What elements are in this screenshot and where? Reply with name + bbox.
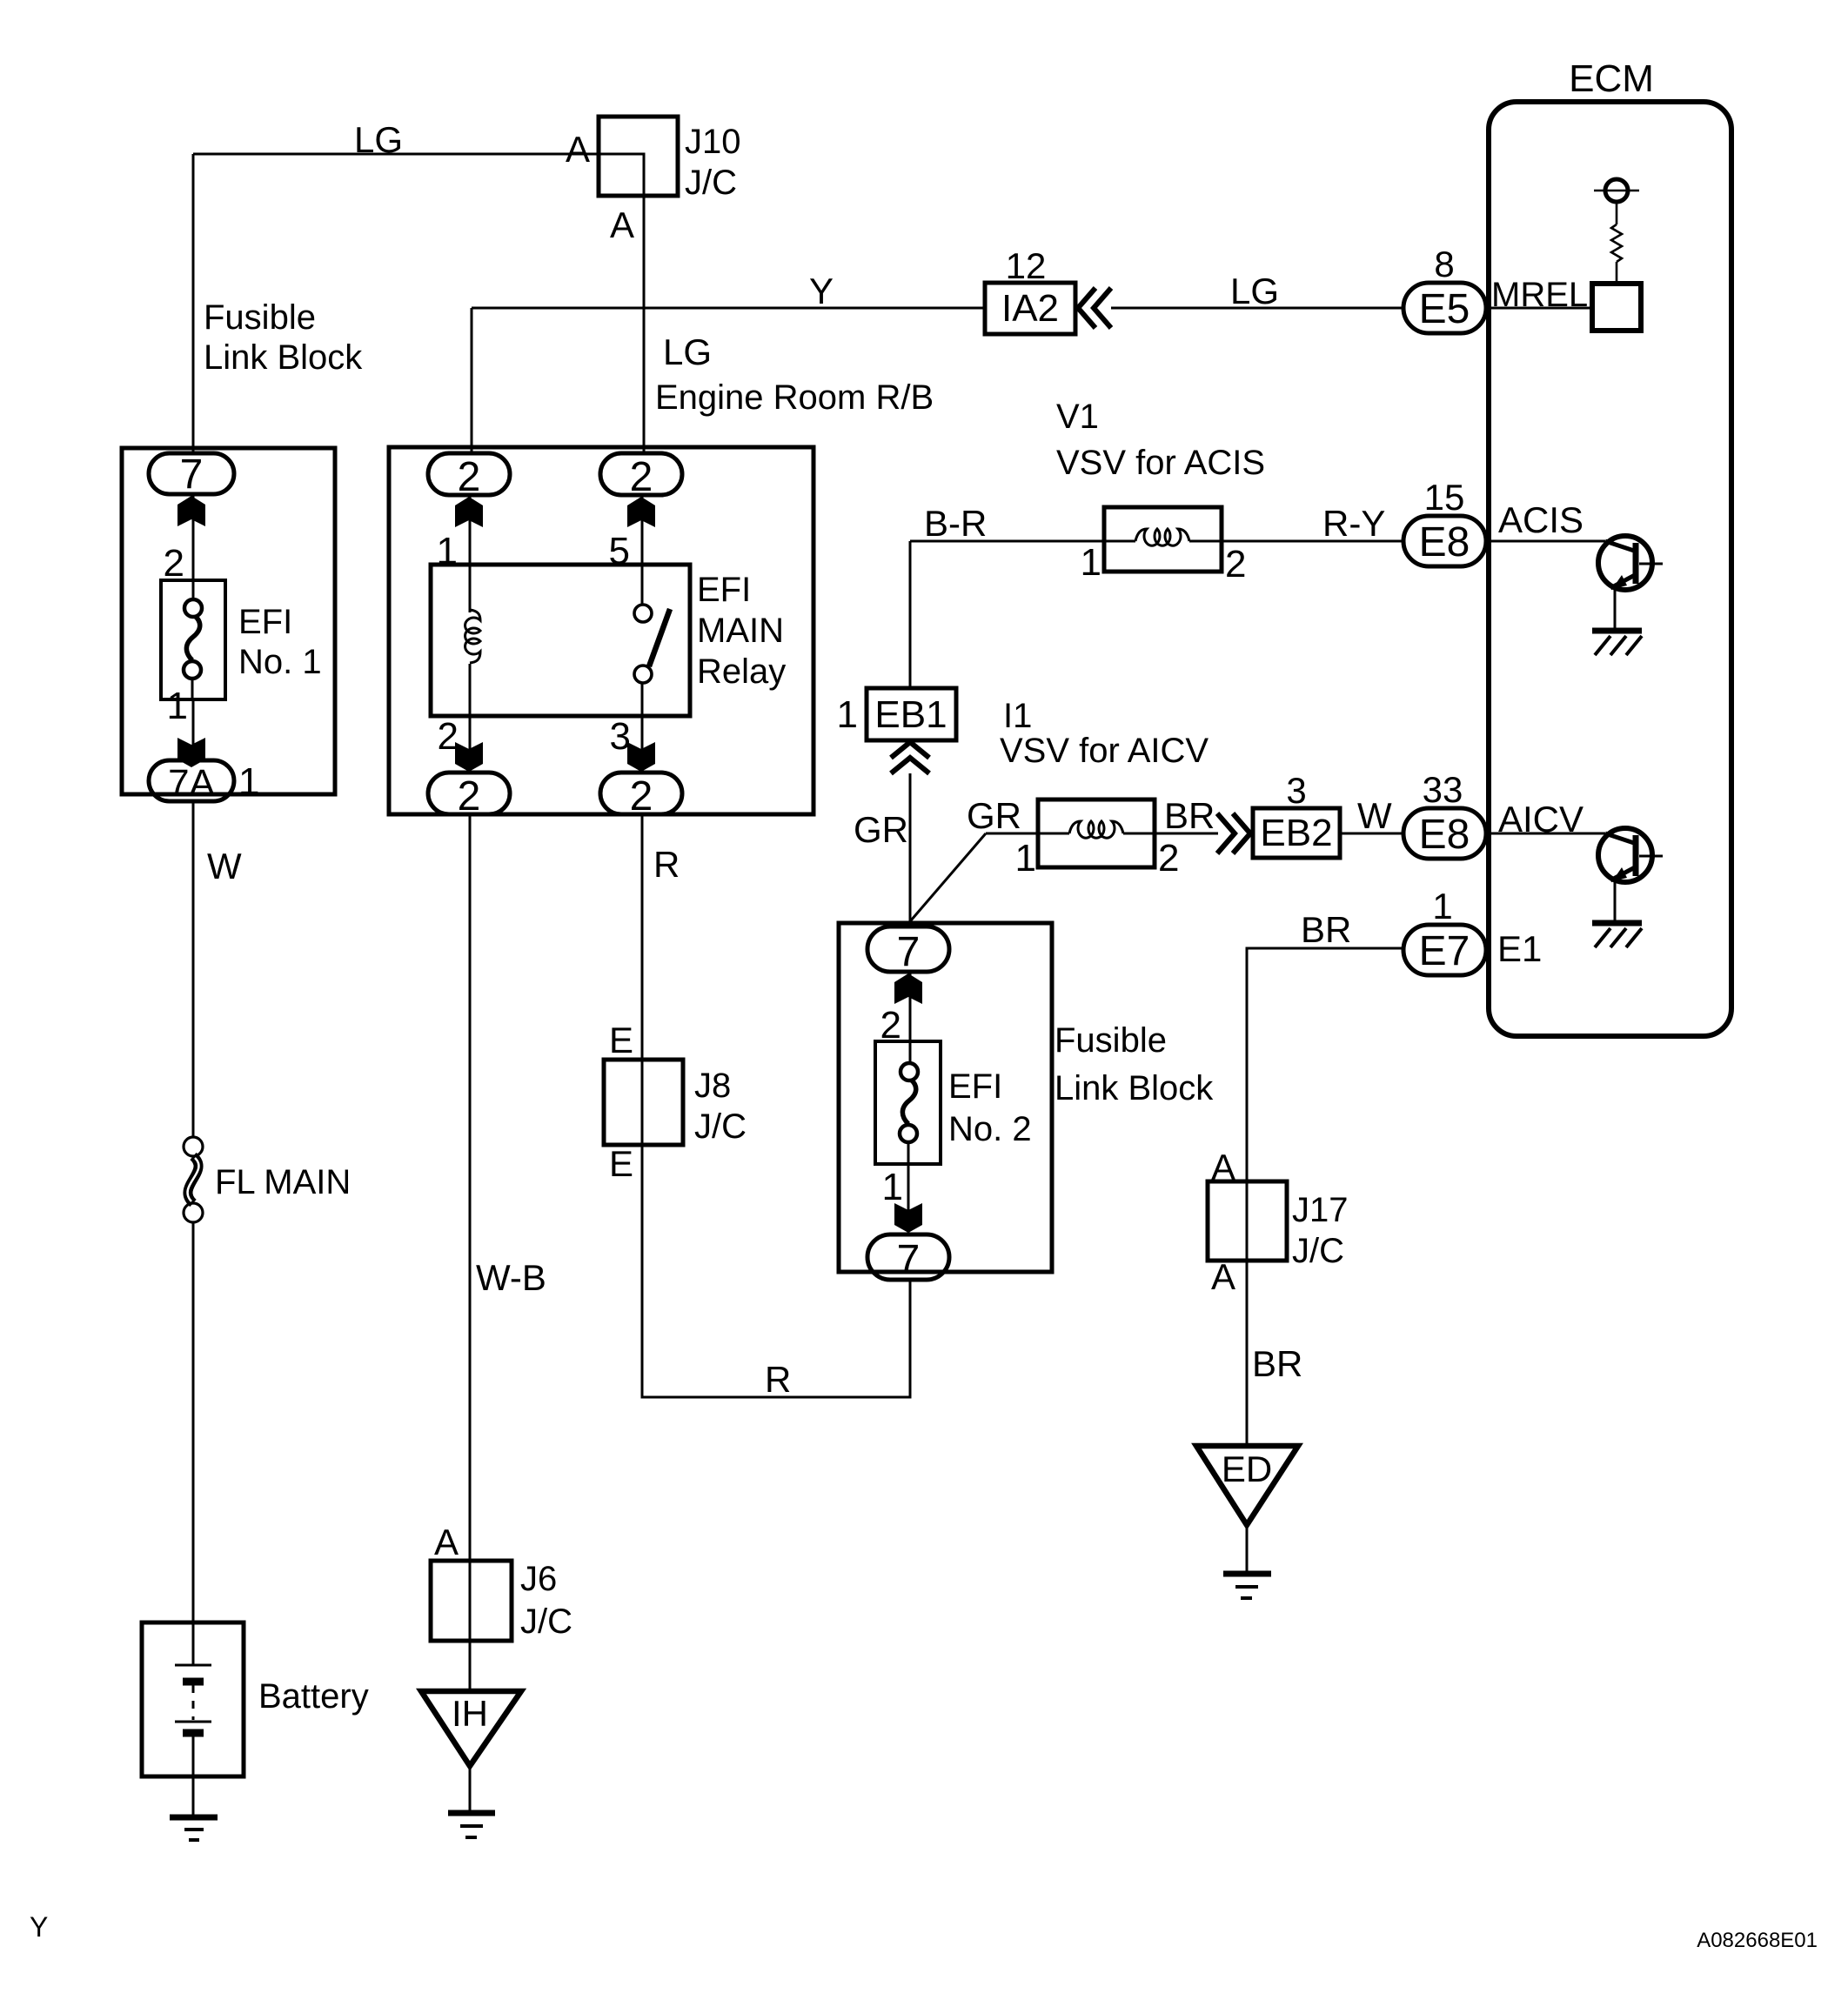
svg-text:IH: IH: [452, 1693, 488, 1734]
svg-text:2: 2: [630, 454, 653, 500]
wire GR to VSV I1: [986, 833, 1038, 835]
wire LG from IA2 to ECM pin E5: [1111, 307, 1403, 310]
wire W-B down to J6: [469, 814, 472, 1561]
svg-text:FL MAIN: FL MAIN: [215, 1163, 351, 1201]
pin oval E8 (33): [1403, 808, 1486, 859]
wire through J6: [469, 1561, 472, 1691]
connector IA2 box: [985, 283, 1075, 334]
resistor zigzag (MREL pullup): [1611, 224, 1622, 262]
pin oval 7 (FLB1 top): [149, 453, 234, 494]
svg-text:A: A: [434, 1522, 459, 1562]
wire LG from J10 down to relay pin 5: [643, 196, 646, 455]
supply circle crossbar: [1594, 190, 1639, 192]
wire relay pin 5: [641, 495, 644, 565]
svg-text:E: E: [609, 1020, 633, 1060]
connector chevrons (EB1, up): [891, 742, 929, 773]
svg-text:LG: LG: [1230, 271, 1279, 311]
ground (battery): [170, 1817, 218, 1840]
svg-text:E: E: [609, 1143, 633, 1184]
svg-text:2: 2: [1158, 837, 1179, 880]
arrow down (FLB2 bottom pin 7): [894, 1203, 922, 1233]
svg-text:J6: J6: [520, 1560, 557, 1598]
wire fuse lower lead: [191, 678, 194, 699]
svg-text:VSV for ACIS: VSV for ACIS: [1056, 444, 1265, 482]
svg-text:1: 1: [1432, 886, 1452, 927]
pin oval E7 (1): [1403, 925, 1486, 975]
wire inside J10: [599, 154, 644, 196]
arrow down (FLB1 pin 7A): [177, 738, 205, 767]
wire IH to ground: [469, 1766, 472, 1810]
pin oval E5: [1403, 283, 1486, 333]
wire W from EB2 to E8(33): [1340, 833, 1403, 835]
ground (ACIS chassis): [1592, 631, 1642, 655]
wire riser EB1: [909, 541, 912, 688]
junction J8 J/C box: [604, 1060, 683, 1145]
svg-text:33: 33: [1423, 769, 1463, 810]
pin oval 7 (FLB2 bottom): [867, 1234, 949, 1280]
svg-text:2: 2: [458, 454, 481, 500]
wire FLB2 fuse lower lead: [907, 1141, 910, 1164]
arrow down (relay pin 3): [627, 742, 655, 772]
ground triangle ED: [1196, 1446, 1298, 1525]
arrow up (relay pin 5): [627, 497, 655, 527]
svg-text:A: A: [610, 204, 634, 245]
svg-text:E8: E8: [1419, 812, 1470, 858]
wire fuse to FLB2 bottom pin: [907, 1164, 910, 1234]
svg-text:E5: E5: [1419, 286, 1470, 332]
svg-text:1: 1: [882, 1166, 903, 1208]
ground (AICV chassis): [1592, 923, 1642, 947]
wire ACIS from ECM edge to transistor: [1489, 540, 1605, 543]
svg-text:A: A: [1211, 1256, 1235, 1297]
svg-text:W: W: [207, 846, 242, 886]
wire BR from E7 to J17: [1247, 948, 1403, 1181]
relay EFI MAIN Relay box: [431, 565, 690, 716]
svg-text:BR: BR: [1301, 909, 1351, 950]
svg-text:GR: GR: [854, 809, 908, 850]
wire square to resistor: [1616, 262, 1618, 284]
wire EB1 down to FLB2 pin 7: [909, 773, 912, 927]
relay switch contact bottom: [634, 666, 652, 683]
svg-text:A: A: [566, 129, 590, 170]
svg-text:ECM: ECM: [1569, 57, 1654, 100]
connector chevrons << at IA2: [1078, 288, 1111, 328]
svg-text:MAIN: MAIN: [697, 612, 784, 650]
svg-text:J10: J10: [685, 123, 741, 161]
VSV I1 internal wire and coil: [1038, 821, 1155, 838]
svg-text:AICV: AICV: [1498, 799, 1584, 840]
Fusible Link Block 1 box: [122, 448, 335, 794]
svg-text:I1: I1: [1003, 697, 1032, 735]
svg-text:8: 8: [1434, 244, 1454, 284]
fuse symbol EFI No.2: [900, 1063, 918, 1142]
svg-text:1: 1: [1081, 541, 1101, 584]
pin oval 2 (relay top-left): [428, 453, 510, 495]
svg-text:VSV for AICV: VSV for AICV: [1000, 732, 1209, 770]
svg-text:W-B: W-B: [476, 1257, 546, 1298]
svg-text:J/C: J/C: [685, 164, 737, 202]
fuse EFI No.2 box: [875, 1041, 941, 1164]
transistor Q2 (AICV driver): [1598, 828, 1663, 920]
wire B-R from EB1 riser to VSV V1: [910, 540, 1104, 543]
relay coil: [465, 610, 480, 663]
svg-text:EFI: EFI: [238, 603, 292, 641]
svg-text:2: 2: [1225, 543, 1246, 585]
Engine Room R/B box: [389, 447, 814, 814]
svg-text:J17: J17: [1292, 1191, 1349, 1229]
svg-text:BR: BR: [1252, 1343, 1302, 1384]
relay coil wire upper: [469, 565, 472, 612]
battery internals: [175, 1622, 211, 1776]
wire FLB2 pin7 to fuse: [909, 972, 912, 1064]
svg-text:12: 12: [1006, 245, 1047, 286]
wire BR from I1 to chevrons: [1155, 833, 1218, 835]
pin oval 2 (relay top-right): [600, 453, 682, 495]
pin oval E8 (15): [1403, 516, 1486, 566]
svg-text:E8: E8: [1419, 519, 1470, 565]
wire ED to ground: [1246, 1525, 1249, 1571]
svg-text:1: 1: [167, 685, 188, 727]
svg-text:EFI: EFI: [697, 571, 751, 609]
ground (IH): [448, 1813, 495, 1837]
svg-text:Link Block: Link Block: [1055, 1069, 1214, 1107]
svg-text:15: 15: [1424, 477, 1465, 518]
arrow up (FLB2 pin 7): [894, 973, 922, 1004]
svg-text:1: 1: [837, 693, 858, 736]
wire LG horizontal from fusible link block to J10: [193, 153, 599, 156]
fusible link FL MAIN: [184, 1137, 203, 1222]
svg-text:7A: 7A: [168, 762, 215, 805]
svg-text:E1: E1: [1497, 928, 1542, 969]
VSV V1 coil box: [1104, 507, 1222, 572]
pin oval 2 (relay bottom-left): [428, 773, 510, 814]
wire R from relay pin 3 down to J8: [641, 814, 644, 1060]
connector EB1 box: [867, 688, 956, 740]
arrow up (relay pin 1): [455, 497, 483, 527]
svg-text:GR: GR: [967, 795, 1021, 836]
svg-text:2: 2: [630, 773, 653, 820]
svg-text:E7: E7: [1419, 928, 1470, 974]
svg-text:EFI: EFI: [948, 1067, 1002, 1106]
wire resistor to supply circle: [1616, 203, 1618, 224]
ground triangle IH: [421, 1691, 521, 1766]
svg-text:7: 7: [897, 1237, 921, 1283]
svg-text:7: 7: [897, 929, 921, 975]
fuse symbol EFI No.1: [184, 599, 202, 679]
wire battery to ground: [192, 1776, 195, 1815]
svg-text:J/C: J/C: [1292, 1232, 1344, 1270]
wire diagonal GR: [911, 833, 986, 920]
svg-text:2: 2: [458, 773, 481, 820]
connector EB2 box: [1253, 808, 1340, 858]
junction J6 J/C box: [431, 1561, 512, 1641]
svg-text:Y: Y: [30, 1911, 48, 1943]
wire BR from J17 to ED: [1246, 1261, 1249, 1446]
svg-text:V1: V1: [1056, 398, 1099, 436]
wire through J8: [641, 1060, 644, 1145]
svg-text:R-Y: R-Y: [1322, 503, 1385, 544]
wire fuse to pin 7A: [192, 699, 195, 760]
svg-text:ED: ED: [1222, 1448, 1272, 1489]
wire W down to FL MAIN: [192, 801, 195, 1137]
svg-text:LG: LG: [663, 331, 712, 372]
svg-text:Battery: Battery: [258, 1677, 369, 1716]
pin oval 7 (FLB2 top): [867, 927, 949, 972]
svg-text:EB1: EB1: [874, 693, 947, 736]
svg-text:Y: Y: [809, 271, 834, 311]
svg-text:Link Block: Link Block: [204, 338, 363, 377]
svg-text:2: 2: [164, 542, 184, 585]
svg-text:Fusible: Fusible: [1055, 1021, 1167, 1060]
wire relay pin 1: [469, 495, 472, 565]
relay switch wire upper: [641, 565, 644, 605]
junction J10 J/C box: [599, 117, 678, 196]
svg-text:1: 1: [238, 760, 259, 803]
ECM box: [1489, 102, 1731, 1036]
svg-text:IA2: IA2: [1001, 287, 1059, 330]
wire LG vertical down to fusible link block pin 7: [192, 154, 195, 455]
fuse EFI No.1 box: [161, 580, 225, 699]
relay switch wire lower: [641, 683, 644, 716]
svg-text:A082668E01: A082668E01: [1697, 1929, 1818, 1952]
svg-text:W: W: [1357, 795, 1392, 836]
pin oval 7A: [149, 760, 234, 801]
relay switch blade: [649, 609, 670, 666]
svg-text:1: 1: [1015, 837, 1036, 880]
svg-text:ACIS: ACIS: [1498, 499, 1584, 540]
relay coil wire lower: [469, 664, 472, 716]
transistor Q1 (ACIS driver): [1598, 536, 1663, 628]
svg-text:EB2: EB2: [1260, 812, 1332, 854]
svg-text:7: 7: [180, 452, 204, 498]
junction J17 J/C box: [1208, 1181, 1287, 1261]
svg-text:No. 2: No. 2: [948, 1110, 1032, 1148]
wire R-Y from V1 to E8(15): [1222, 540, 1403, 543]
wire relay pin 2 down: [469, 716, 472, 773]
Fusible Link Block 2 box: [839, 923, 1052, 1272]
battery box: [142, 1622, 244, 1776]
wire Y from relay pin1 riser to IA2: [472, 307, 985, 310]
VSV I1 coil box: [1038, 799, 1155, 867]
svg-text:J/C: J/C: [520, 1602, 572, 1641]
relay switch contact top: [634, 605, 652, 622]
svg-text:R: R: [653, 844, 680, 885]
connector chevrons >> at EB2: [1217, 813, 1250, 853]
svg-text:Fusible: Fusible: [204, 298, 316, 337]
arrow down (relay pin 2): [455, 742, 483, 772]
pin oval 2 (relay bottom-right): [600, 773, 682, 814]
svg-text:J/C: J/C: [694, 1107, 747, 1146]
svg-text:B-R: B-R: [924, 503, 987, 544]
ground (ED): [1223, 1574, 1271, 1598]
wire through J17: [1246, 1181, 1249, 1261]
wire pin7 to fuse: [192, 494, 195, 600]
svg-text:J8: J8: [694, 1067, 731, 1105]
svg-text:Relay: Relay: [697, 652, 786, 691]
svg-text:LG: LG: [354, 119, 403, 160]
wire R routing to FLB2: [642, 1145, 910, 1397]
VSV V1 internal wire and coil: [1104, 529, 1222, 545]
svg-text:3: 3: [1286, 770, 1306, 811]
svg-text:BR: BR: [1164, 795, 1215, 836]
arrow up (FLB1 pin 7): [177, 496, 205, 526]
wire FL MAIN to battery: [192, 1222, 195, 1622]
svg-text:No. 1: No. 1: [238, 643, 322, 681]
MREL driver square: [1592, 284, 1641, 331]
svg-text:Engine Room R/B: Engine Room R/B: [655, 378, 934, 417]
wire AICV from ECM edge to transistor: [1489, 833, 1605, 835]
supply circle symbol: [1605, 179, 1628, 202]
wire riser to relay pin 1 oval: [471, 308, 473, 455]
svg-text:R: R: [765, 1359, 791, 1400]
wire relay pin 3 down: [641, 716, 644, 773]
wire MREL inside ECM: [1489, 307, 1592, 310]
